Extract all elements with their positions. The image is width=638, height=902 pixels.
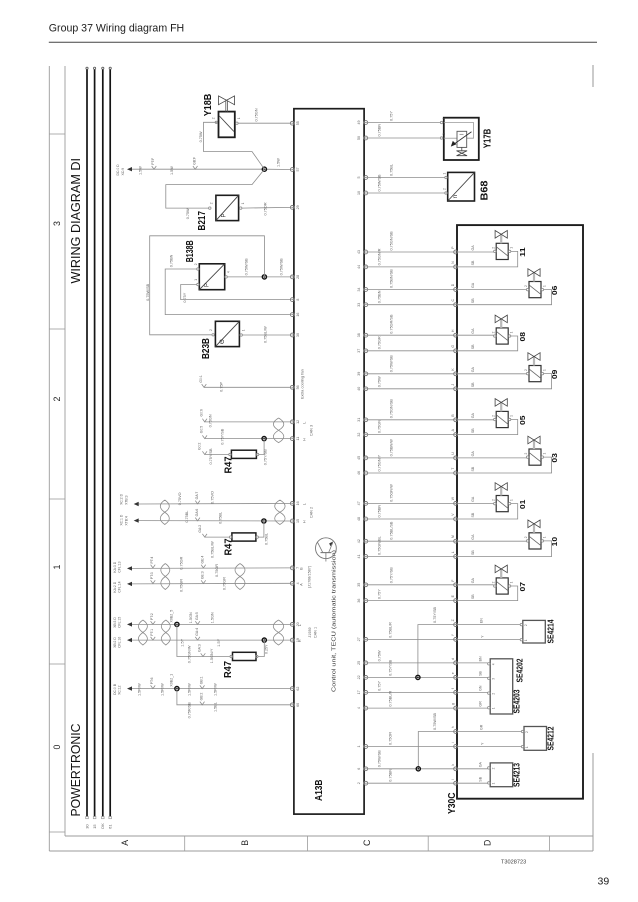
svg-text:31: 31 bbox=[357, 418, 361, 422]
svg-text:49: 49 bbox=[357, 121, 361, 125]
svg-text:PT:4: PT:4 bbox=[150, 557, 154, 564]
svg-text:2: 2 bbox=[525, 731, 529, 733]
svg-text:0.75GR: 0.75GR bbox=[179, 579, 183, 592]
svg-text:0.75W/SB: 0.75W/SB bbox=[280, 258, 284, 276]
CAN1 twisted pair right bbox=[273, 620, 283, 645]
svg-text:1: 1 bbox=[510, 247, 514, 249]
wire CAN2 junction to R47 bbox=[258, 521, 268, 545]
A13B right pin 5 bbox=[357, 176, 368, 180]
svg-text:1: 1 bbox=[237, 117, 241, 119]
svg-text:SB: SB bbox=[471, 550, 475, 555]
CAN2 twisted pair left bbox=[160, 500, 169, 525]
wire B138B pin2 to A13B pin16 bbox=[165, 254, 290, 314]
A13B left pin 19 bbox=[290, 638, 299, 642]
CAN1 twisted pair mid bbox=[161, 620, 170, 645]
svg-text:2: 2 bbox=[491, 499, 495, 501]
A13B right pin 46 bbox=[357, 471, 368, 475]
wire Y18B pin2 branch bbox=[199, 122, 264, 169]
svg-text:0.75W: 0.75W bbox=[186, 208, 190, 219]
A13B right pin 36 bbox=[357, 599, 368, 603]
svg-text:0.75Y/SB: 0.75Y/SB bbox=[433, 606, 437, 623]
svg-text:CFL:13: CFL:13 bbox=[118, 561, 122, 572]
svg-text:6: 6 bbox=[357, 768, 361, 770]
svg-text:A: A bbox=[299, 583, 303, 586]
sensor B68 symbol n bbox=[452, 195, 459, 199]
valve Y17B arrow bbox=[451, 132, 472, 147]
power rail bus bar 3 bbox=[102, 67, 105, 819]
A13B right pin 43 bbox=[357, 250, 368, 254]
A13B left pin 11 bbox=[290, 437, 299, 441]
svg-text:CFL:16: CFL:16 bbox=[118, 637, 122, 648]
svg-text:0.75BL/R: 0.75BL/R bbox=[388, 622, 392, 638]
A13B left pin 29 bbox=[290, 205, 299, 209]
wire A13B to Y30C at y556 (0.75GN/BL) bbox=[368, 536, 454, 556]
junction node at pin57 wire bbox=[262, 167, 266, 171]
Y30C pin H bbox=[451, 329, 458, 337]
A13B right pin 42 bbox=[357, 539, 368, 543]
svg-text:27: 27 bbox=[357, 637, 361, 641]
svg-text:1: 1 bbox=[542, 453, 546, 455]
svg-text:B68: B68 bbox=[480, 180, 491, 200]
svg-text:2: 2 bbox=[491, 247, 495, 249]
A13B right pin 2 bbox=[357, 781, 368, 785]
A13B right pin 27 bbox=[357, 637, 368, 641]
svg-text:29: 29 bbox=[296, 205, 300, 209]
svg-text:0.75Y/SB: 0.75Y/SB bbox=[220, 428, 224, 445]
wire A13B to Y30C at y662 (0.75W) bbox=[368, 650, 454, 663]
Y30C pin D bbox=[451, 283, 458, 291]
title WIRING DIAGRAM DI bbox=[68, 158, 83, 284]
svg-text:10: 10 bbox=[550, 537, 559, 547]
wire ground G0:1 to pin 56 bbox=[199, 375, 290, 392]
svg-text:0.75GN/SB: 0.75GN/SB bbox=[389, 231, 393, 251]
wire A13B to Y30C at y335 (0.75GR/SB) bbox=[368, 314, 454, 335]
CAN3 twisted pair symbol bbox=[273, 418, 283, 443]
junction on CAN1 H wire bbox=[262, 638, 266, 642]
wire junction to B23B pin2 bbox=[146, 236, 264, 335]
label X0B2_1 bbox=[169, 674, 173, 687]
valve Y18B label bbox=[203, 94, 214, 117]
svg-text:0.75BN: 0.75BN bbox=[388, 769, 392, 782]
svg-text:L: L bbox=[302, 503, 306, 505]
svg-text:0.75P: 0.75P bbox=[220, 382, 224, 392]
Y30C pin T bbox=[451, 468, 458, 475]
valve block Y30C box bbox=[457, 225, 583, 799]
wire A13B to Y30C at y783 (0.75BN) bbox=[368, 769, 454, 783]
frame left outer border bbox=[48, 66, 50, 851]
svg-text:XTB:3: XTB:3 bbox=[124, 495, 128, 505]
svg-text:Group 37 Wiring diagram FH: Group 37 Wiring diagram FH bbox=[49, 23, 184, 35]
svg-text:Control unit, TECU (automatic: Control unit, TECU (automatic transmissi… bbox=[331, 550, 337, 692]
CAN3 text L H CAN 3 bbox=[302, 422, 313, 441]
sensor B138B label bbox=[185, 240, 196, 262]
svg-text:Y30C: Y30C bbox=[447, 793, 458, 815]
svg-text:SE4203: SE4203 bbox=[512, 689, 521, 713]
svg-text:XC:2 D: XC:2 D bbox=[120, 493, 124, 504]
wire A13B to Y30C at y434 (0.75GN) bbox=[368, 420, 454, 435]
svg-text:G0:6: G0:6 bbox=[199, 409, 203, 416]
svg-text:0.75Y/SB: 0.75Y/SB bbox=[388, 659, 392, 676]
svg-text:0.75W/SB: 0.75W/SB bbox=[433, 712, 437, 730]
svg-text:2: 2 bbox=[52, 396, 62, 401]
svg-text:SB: SB bbox=[471, 428, 475, 433]
svg-text:1.5GN: 1.5GN bbox=[210, 612, 214, 623]
svg-text:47: 47 bbox=[357, 501, 361, 505]
svg-text:SE4213: SE4213 bbox=[512, 763, 521, 787]
A13B left pin 7 bbox=[290, 566, 299, 570]
svg-text:0.75BN/W: 0.75BN/W bbox=[389, 439, 393, 457]
svg-text:4: 4 bbox=[491, 663, 495, 665]
A13B left pin 55 bbox=[290, 121, 299, 125]
wire A13B to Y30C at y746 (0.75OR) bbox=[368, 732, 454, 747]
svg-text:WIRING DIAGRAM DI: WIRING DIAGRAM DI bbox=[68, 158, 83, 284]
solenoid valve 05 in Y30C bbox=[458, 399, 527, 435]
power rail label 30 bbox=[84, 824, 89, 829]
svg-text:Extra cooling fan: Extra cooling fan bbox=[300, 369, 305, 399]
Y30C pin l bbox=[451, 779, 458, 785]
svg-text:GA: GA bbox=[471, 328, 475, 334]
svg-text:0.75GN/R: 0.75GN/R bbox=[377, 248, 381, 265]
svg-text:CFL:14: CFL:14 bbox=[118, 581, 122, 592]
solenoid valve 09 in Y30C bbox=[458, 353, 559, 389]
sensor B138B pin 2 bbox=[194, 263, 199, 270]
svg-text:P: P bbox=[205, 283, 211, 287]
svg-text:Y17B: Y17B bbox=[483, 129, 494, 149]
Y30C pin V bbox=[451, 513, 458, 521]
svg-text:B23B: B23B bbox=[201, 338, 212, 359]
svg-text:B: B bbox=[240, 840, 250, 846]
svg-text:11: 11 bbox=[296, 437, 300, 441]
svg-text:12: 12 bbox=[296, 420, 300, 424]
sensor B23B pin 2 bbox=[209, 329, 214, 336]
svg-text:0.75GN/W: 0.75GN/W bbox=[389, 484, 393, 502]
svg-text:Y18B: Y18B bbox=[203, 94, 214, 117]
svg-text:62: 62 bbox=[296, 687, 300, 691]
wire A13B to Y30C at y304 (0.75BN) bbox=[368, 290, 454, 304]
svg-text:41: 41 bbox=[357, 555, 361, 559]
svg-text:0.75Y/SB: 0.75Y/SB bbox=[263, 449, 267, 466]
svg-text:T: T bbox=[451, 468, 455, 470]
svg-text:R47: R47 bbox=[224, 538, 235, 555]
J1708 twisted pair left bbox=[161, 564, 170, 590]
svg-text:0.75Y: 0.75Y bbox=[389, 111, 393, 121]
svg-text:4: 4 bbox=[226, 271, 230, 273]
svg-text:2: 2 bbox=[491, 415, 495, 417]
wire A13B to Y30C at y708 (0.75BL/R) bbox=[368, 691, 454, 709]
svg-text:0.75W/SB: 0.75W/SB bbox=[377, 174, 381, 192]
svg-text:A: A bbox=[120, 840, 130, 846]
wire pin5 to B68 pin1 bbox=[368, 164, 445, 178]
svg-text:2: 2 bbox=[194, 263, 198, 265]
Y30C pin L bbox=[451, 551, 458, 558]
A13B right pin 38 bbox=[357, 333, 368, 337]
wire pin50 to Y17B pin2 bbox=[368, 124, 440, 138]
sensor B23B label bbox=[201, 338, 212, 359]
wire A13B to Y30C at y768 (0.75W/SB) bbox=[368, 750, 454, 769]
svg-text:GA:7: GA:7 bbox=[195, 492, 199, 500]
svg-text:B138B: B138B bbox=[185, 240, 196, 262]
junction on CAN2 H wire bbox=[262, 519, 266, 523]
svg-text:0: 0 bbox=[52, 744, 62, 749]
solenoid valve 11 in Y30C bbox=[458, 231, 527, 267]
Y30C pin h bbox=[451, 726, 458, 733]
svg-text:2: 2 bbox=[524, 536, 528, 538]
svg-text:Θ: Θ bbox=[219, 339, 226, 344]
svg-text:PT:3: PT:3 bbox=[150, 572, 154, 579]
J1708 text A B bbox=[299, 565, 311, 588]
sensor B138B pin 1 bbox=[194, 279, 199, 286]
svg-text:1: 1 bbox=[510, 415, 514, 417]
A13B left pin 12 bbox=[290, 420, 299, 424]
svg-text:2: 2 bbox=[524, 624, 528, 626]
svg-text:f: f bbox=[451, 688, 455, 689]
solenoid valve 07 in Y30C bbox=[458, 565, 527, 601]
wire A13B to Y30C at y584 (0.75Y/SB) bbox=[368, 567, 454, 585]
frame bottom inner border bbox=[65, 835, 593, 837]
svg-text:L: L bbox=[298, 624, 302, 626]
svg-text:GR: GR bbox=[478, 701, 482, 707]
svg-text:1.5GN/Y: 1.5GN/Y bbox=[210, 648, 214, 663]
A13B left pin 8 bbox=[290, 298, 299, 302]
svg-text:SB: SB bbox=[478, 671, 482, 676]
svg-text:PT:F: PT:F bbox=[151, 158, 155, 165]
A13B right pin 40 bbox=[357, 387, 368, 391]
wire A13B to Y30C at y692 (0.75Y) bbox=[368, 681, 454, 693]
svg-text:1.5W: 1.5W bbox=[276, 158, 280, 167]
wire R47 CAN2 left bbox=[198, 525, 229, 558]
svg-text:0.75GN: 0.75GN bbox=[377, 420, 381, 433]
power rail label 15 bbox=[92, 824, 97, 829]
svg-text:SB: SB bbox=[471, 298, 475, 303]
sensor B138B box bbox=[199, 264, 224, 290]
CAN1 wire L bbox=[113, 612, 290, 628]
svg-text:GA: GA bbox=[471, 578, 475, 584]
svg-text:4: 4 bbox=[357, 707, 361, 709]
svg-text:3: 3 bbox=[491, 678, 495, 680]
svg-text:32: 32 bbox=[357, 433, 361, 437]
svg-text:06: 06 bbox=[550, 286, 559, 296]
svg-text:25: 25 bbox=[357, 661, 361, 665]
drawing number T3028723 bbox=[501, 860, 526, 866]
frame column label 2 bbox=[52, 396, 62, 401]
CAN2 wire L bbox=[120, 491, 290, 506]
svg-text:H: H bbox=[302, 520, 306, 523]
wire R47 CAN3 left bbox=[198, 443, 229, 465]
svg-text:SB: SB bbox=[471, 466, 475, 471]
svg-text:L: L bbox=[451, 551, 455, 553]
svg-text:XC:9: XC:9 bbox=[121, 168, 125, 176]
svg-text:1: 1 bbox=[52, 564, 62, 569]
svg-text:48: 48 bbox=[357, 517, 361, 521]
svg-text:5: 5 bbox=[357, 177, 361, 179]
svg-text:BN: BN bbox=[478, 656, 482, 661]
Y30C pin B bbox=[451, 414, 458, 422]
sensor B68 box bbox=[448, 172, 475, 201]
frame left inner border bbox=[64, 66, 66, 836]
svg-text:0.75OR: 0.75OR bbox=[388, 732, 392, 745]
J1708 wire B bbox=[113, 556, 290, 577]
svg-text:10: 10 bbox=[357, 191, 361, 195]
svg-text:50: 50 bbox=[357, 136, 361, 140]
svg-text:38: 38 bbox=[357, 333, 361, 337]
page number bbox=[598, 876, 610, 888]
svg-text:P: P bbox=[221, 213, 227, 217]
wire branch to Y30C pin Z bbox=[418, 606, 454, 677]
svg-text:X0B2_1: X0B2_1 bbox=[169, 674, 173, 687]
svg-text:PT:1: PT:1 bbox=[150, 629, 154, 636]
svg-text:G0:1: G0:1 bbox=[199, 375, 203, 382]
svg-text:0.75GN/SB: 0.75GN/SB bbox=[389, 399, 393, 419]
Y30C pin C bbox=[451, 299, 458, 307]
Y30C pin k bbox=[451, 764, 458, 771]
frame left strip dividers bbox=[49, 134, 65, 832]
svg-text:0.75OR: 0.75OR bbox=[215, 564, 219, 577]
A13B left pin 15 bbox=[290, 519, 299, 523]
svg-text:GA: GA bbox=[478, 762, 482, 768]
svg-text:55: 55 bbox=[296, 121, 300, 125]
svg-text:0.75GN: 0.75GN bbox=[254, 108, 258, 121]
svg-text:45: 45 bbox=[357, 456, 361, 460]
svg-text:2: 2 bbox=[443, 188, 447, 190]
svg-text:0.75W/SB: 0.75W/SB bbox=[389, 355, 393, 373]
A13B left pin 57 bbox=[290, 168, 299, 172]
A13B left pin 4 bbox=[290, 581, 299, 585]
wire A13B to Y30C at y541 (0.75BL/SB) bbox=[368, 521, 454, 541]
wire supply feed to pin 57 bbox=[116, 157, 290, 176]
svg-text:1.5R/W: 1.5R/W bbox=[188, 683, 192, 696]
svg-text:0.75W/SB: 0.75W/SB bbox=[377, 750, 381, 768]
svg-text:GA:4: GA:4 bbox=[195, 628, 199, 636]
A13B right pin 31 bbox=[357, 418, 368, 422]
junction X0B2_1 on power feed bbox=[175, 687, 179, 691]
A13B right pin 47 bbox=[357, 501, 368, 505]
transistor symbol inside A13B bbox=[316, 538, 337, 562]
svg-text:DK: DK bbox=[100, 823, 105, 829]
svg-text:0.75Y/SB: 0.75Y/SB bbox=[389, 567, 393, 584]
svg-text:34: 34 bbox=[357, 288, 361, 292]
svg-text:1.5Y: 1.5Y bbox=[217, 638, 221, 646]
A13B right pin 48 bbox=[357, 517, 368, 521]
svg-text:30: 30 bbox=[84, 824, 89, 829]
svg-text:J1939: J1939 bbox=[308, 627, 312, 637]
Y30C pin g bbox=[451, 703, 458, 710]
svg-text:0.75W/SB: 0.75W/SB bbox=[146, 283, 150, 301]
power rail bus bar 2 bbox=[93, 67, 96, 819]
svg-text:0.75GR/SB: 0.75GR/SB bbox=[389, 314, 393, 334]
svg-text:1: 1 bbox=[510, 499, 514, 501]
svg-text:1.5Y: 1.5Y bbox=[181, 638, 185, 646]
frame bottom strip dividers bbox=[185, 836, 550, 851]
wire A13B to Y30C at y473 (0.75GN/Y) bbox=[368, 454, 454, 473]
A13B right pin 49 bbox=[357, 121, 368, 125]
A13B left pin 62 bbox=[290, 687, 299, 691]
power rail bus bar 4 bbox=[109, 67, 112, 819]
wire A13B to Y30C at y503 (0.75GN/W) bbox=[368, 484, 454, 504]
frame column label 1 bbox=[52, 564, 62, 569]
svg-text:15: 15 bbox=[296, 519, 300, 523]
Y30C pin Y bbox=[451, 633, 458, 641]
svg-text:57: 57 bbox=[296, 168, 300, 172]
svg-text:GN: GN bbox=[478, 685, 482, 691]
svg-text:1: 1 bbox=[491, 707, 495, 709]
junction on wire 22 bbox=[416, 675, 420, 679]
wire pin49 to Y17B pin1 bbox=[368, 111, 440, 123]
svg-text:1: 1 bbox=[542, 536, 546, 538]
svg-text:0.25Y: 0.25Y bbox=[264, 644, 268, 654]
svg-text:46: 46 bbox=[357, 471, 361, 475]
svg-text:g: g bbox=[451, 703, 455, 705]
svg-text:0.75BL/R: 0.75BL/R bbox=[388, 691, 392, 707]
wire A13B to Y30C at y677 (0.75Y/SB) bbox=[368, 659, 454, 677]
svg-text:SB: SB bbox=[471, 260, 475, 265]
solenoid valve 10 in Y30C bbox=[458, 520, 559, 557]
svg-text:XTB:4: XTB:4 bbox=[124, 516, 128, 526]
Y30C pin F bbox=[451, 580, 458, 587]
svg-text:(J1708/1587): (J1708/1587) bbox=[307, 565, 311, 588]
svg-text:GA:6: GA:6 bbox=[195, 509, 199, 517]
sensor B217 pin 2 bbox=[209, 202, 214, 209]
svg-text:0.75BL: 0.75BL bbox=[185, 511, 189, 523]
A13B right pin 17 bbox=[357, 690, 368, 694]
svg-text:GB:F: GB:F bbox=[192, 157, 196, 165]
svg-text:SE4202: SE4202 bbox=[516, 658, 525, 682]
A13B left pin 56 bbox=[290, 385, 299, 389]
svg-text:08: 08 bbox=[518, 332, 527, 342]
wire A13B to Y30C at y252 (0.75GN/SB) bbox=[368, 231, 454, 252]
svg-text:1.5R/W: 1.5R/W bbox=[213, 683, 217, 696]
svg-text:0.75Y: 0.75Y bbox=[377, 589, 381, 599]
svg-text:1: 1 bbox=[542, 369, 546, 371]
svg-text:0.75BL: 0.75BL bbox=[389, 164, 393, 176]
valve block Y30C label bbox=[447, 793, 458, 815]
svg-text:SE4214: SE4214 bbox=[546, 619, 555, 643]
Y30C pin E bbox=[451, 594, 458, 602]
Y30C pin e bbox=[451, 672, 458, 679]
svg-text:H: H bbox=[302, 438, 306, 441]
valve Y17B label bbox=[483, 129, 494, 149]
Y30C pin G bbox=[451, 345, 458, 353]
svg-text:EN: EN bbox=[480, 618, 484, 623]
wire branch to Y30C pin h bbox=[418, 712, 453, 768]
CAN3 wire L bbox=[199, 409, 290, 427]
solenoid valve 01 in Y30C bbox=[458, 483, 527, 519]
svg-text:1: 1 bbox=[491, 782, 495, 784]
svg-text:J: J bbox=[451, 384, 455, 386]
svg-text:1: 1 bbox=[524, 639, 528, 641]
svg-text:G0:2: G0:2 bbox=[198, 443, 202, 450]
Y30C pin U bbox=[451, 452, 458, 460]
svg-text:1.5W: 1.5W bbox=[170, 166, 174, 175]
J1708 wire A bbox=[113, 571, 290, 592]
Y30C pin P bbox=[451, 246, 458, 254]
svg-text:61: 61 bbox=[108, 824, 113, 829]
svg-text:A13B: A13B bbox=[314, 780, 325, 802]
svg-text:M: M bbox=[451, 535, 455, 538]
sensor B68 label bbox=[480, 180, 491, 200]
svg-text:2: 2 bbox=[491, 767, 495, 769]
svg-text:PT:6: PT:6 bbox=[150, 677, 154, 684]
svg-text:0.75W: 0.75W bbox=[377, 376, 381, 387]
A13B left pin 16 bbox=[290, 313, 299, 317]
svg-text:33: 33 bbox=[357, 303, 361, 307]
solenoid valve 03 in Y30C bbox=[458, 436, 559, 473]
CAN1 wire H bbox=[113, 628, 290, 648]
svg-text:0.75BN: 0.75BN bbox=[377, 505, 381, 518]
Y30C pin M bbox=[451, 535, 458, 543]
svg-text:28: 28 bbox=[296, 275, 300, 279]
svg-text:2: 2 bbox=[491, 331, 495, 333]
A13B right pin 44 bbox=[357, 265, 368, 269]
